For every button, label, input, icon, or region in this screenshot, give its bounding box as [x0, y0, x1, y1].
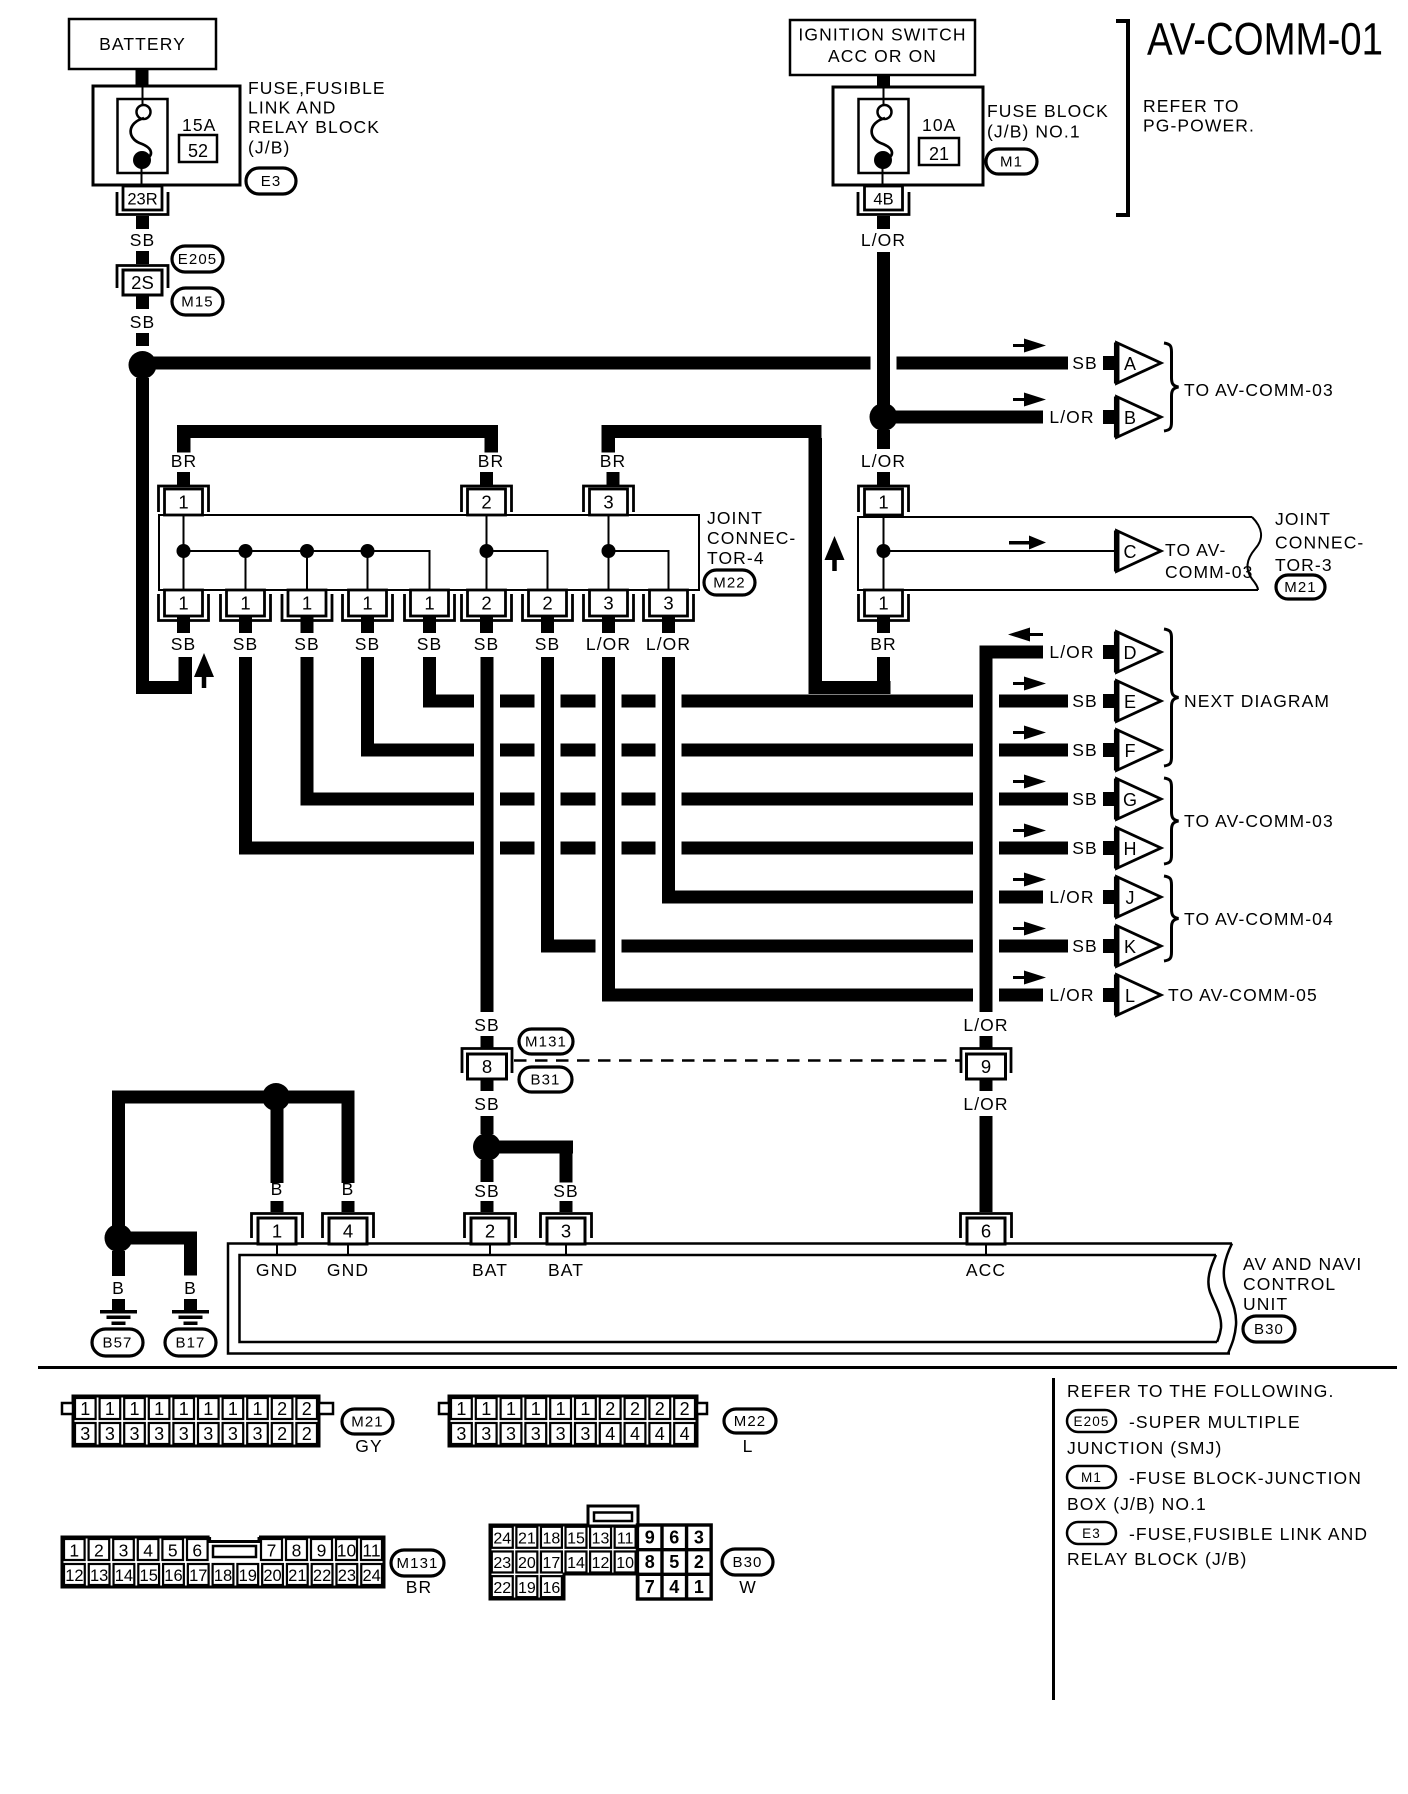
M22 internal bus group 1 — [183, 551, 185, 590]
wire GND pin 1 drop — [271, 1104, 284, 1183]
wire SB from M22 pin4 to row F — [361, 657, 374, 757]
wire stub row H — [1103, 841, 1114, 855]
svg-text:10A: 10A — [922, 115, 956, 135]
svg-text:M21: M21 — [1284, 579, 1316, 596]
svg-text:3: 3 — [603, 492, 613, 513]
M22 bottom pin 3 at x668.5 — [650, 590, 688, 616]
svg-text:B: B — [342, 1179, 355, 1199]
svg-text:SB: SB — [553, 1181, 579, 1201]
svg-text:CONNEC-: CONNEC- — [707, 528, 796, 548]
svg-text:M131: M131 — [397, 1555, 439, 1572]
svg-text:3: 3 — [603, 593, 613, 614]
svg-text:REFER TO THE FOLLOWING.: REFER TO THE FOLLOWING. — [1067, 1381, 1334, 1401]
svg-text:-FUSE BLOCK-JUNCTION: -FUSE BLOCK-JUNCTION — [1129, 1468, 1362, 1488]
brace rows D-F — [1164, 629, 1179, 766]
svg-text:19: 19 — [239, 1567, 257, 1585]
junction node SB BAT — [473, 1133, 501, 1161]
svg-text:3: 3 — [506, 1424, 516, 1444]
M22 internal bus group 3 — [608, 515, 610, 590]
wire row G SB — [307, 793, 474, 806]
svg-text:RELAY BLOCK (J/B): RELAY BLOCK (J/B) — [1067, 1549, 1247, 1569]
svg-text:1: 1 — [362, 593, 372, 614]
wire row H SB — [246, 842, 475, 855]
svg-text:3: 3 — [179, 1424, 189, 1444]
svg-text:TO AV-COMM-03: TO AV-COMM-03 — [1184, 380, 1334, 400]
svg-text:2: 2 — [94, 1541, 104, 1561]
reference bracket — [1126, 19, 1130, 217]
off-page connector G — [1117, 779, 1162, 820]
connector B30 oval — [1243, 1316, 1295, 1342]
svg-text:4: 4 — [680, 1424, 690, 1444]
wire branch to B17 — [119, 1232, 197, 1245]
svg-text:2: 2 — [481, 593, 491, 614]
wire stub above pin 2 — [481, 1201, 494, 1212]
wire L/OR from M22 pin8 to row L — [602, 657, 615, 1002]
arrow on row F — [1013, 731, 1029, 734]
svg-text:BATTERY: BATTERY — [99, 34, 186, 54]
svg-text:F: F — [1125, 741, 1136, 761]
svg-text:L/OR: L/OR — [1049, 887, 1094, 907]
svg-text:GY: GY — [355, 1436, 383, 1456]
SMJ connector 2S — [117, 266, 168, 289]
svg-text:52: 52 — [188, 141, 208, 161]
svg-text:17: 17 — [189, 1567, 207, 1585]
svg-text:9: 9 — [645, 1528, 655, 1548]
svg-text:1: 1 — [878, 593, 888, 614]
svg-text:5: 5 — [168, 1541, 178, 1561]
arrow on row B — [1013, 398, 1029, 401]
svg-text:C: C — [1124, 542, 1137, 562]
svg-text:K: K — [1124, 937, 1136, 957]
svg-text:JOINT: JOINT — [707, 508, 763, 528]
svg-text:B: B — [1124, 408, 1136, 428]
svg-text:10: 10 — [337, 1541, 357, 1561]
svg-text:4B: 4B — [873, 191, 893, 209]
connector E3 oval — [246, 168, 296, 194]
svg-text:B: B — [184, 1278, 197, 1298]
svg-text:3: 3 — [252, 1424, 262, 1444]
fuse block E3 box — [93, 86, 240, 185]
wire ignition to fuse block — [877, 75, 890, 87]
wire L/OR to pin 6 — [980, 1116, 993, 1212]
junction node ground left — [105, 1224, 133, 1252]
svg-text:TO AV-: TO AV- — [1165, 540, 1226, 560]
svg-text:(J/B) NO.1: (J/B) NO.1 — [987, 122, 1081, 142]
wire GND pin 4 drop — [342, 1091, 355, 1184]
svg-text:SB: SB — [130, 230, 156, 250]
svg-text:24: 24 — [493, 1531, 511, 1548]
svg-text:L/OR: L/OR — [861, 451, 906, 471]
M22 bottom pin 1 at x429.5 — [411, 590, 449, 616]
svg-text:M1: M1 — [1081, 1470, 1102, 1485]
svg-text:2: 2 — [680, 1399, 690, 1419]
svg-text:SB: SB — [1072, 936, 1098, 956]
wire below ground-left node — [112, 1251, 125, 1276]
off-page connector H — [1117, 828, 1162, 869]
table M131 oval — [391, 1550, 444, 1576]
battery — [69, 19, 216, 69]
ignition switch box — [790, 20, 975, 75]
wire stub above M22 top pin 2 — [480, 472, 493, 486]
svg-text:L/OR: L/OR — [646, 634, 691, 654]
arrow on row H — [1013, 829, 1029, 832]
svg-text:1: 1 — [531, 1399, 541, 1419]
M22 internal bus group 2 — [486, 515, 488, 590]
svg-text:GND: GND — [327, 1260, 369, 1280]
svg-text:20: 20 — [518, 1555, 536, 1572]
legend E205 oval — [1067, 1410, 1116, 1432]
svg-text:8: 8 — [292, 1541, 302, 1561]
svg-text:GND: GND — [256, 1260, 298, 1280]
svg-text:L/OR: L/OR — [1049, 642, 1094, 662]
svg-text:3: 3 — [561, 1221, 571, 1242]
junction node battery SB — [129, 351, 157, 379]
connector B17 oval — [165, 1329, 216, 1356]
wire row D L/OR — [986, 646, 1043, 659]
svg-text:4: 4 — [343, 1221, 353, 1242]
M22 bottom pin 1 at x183.5 — [165, 590, 203, 616]
off-page connector F — [1117, 730, 1162, 771]
wire row F SB — [368, 744, 475, 757]
svg-text:SB: SB — [474, 1015, 500, 1035]
wire stub above M22 top pin 3 — [607, 472, 620, 486]
arrow on row L — [1013, 976, 1029, 979]
svg-text:CONNEC-: CONNEC- — [1275, 533, 1364, 553]
table M22 oval — [724, 1409, 776, 1433]
wire stub below 23R — [136, 216, 149, 229]
svg-text:15A: 15A — [182, 115, 216, 135]
svg-text:(J/B): (J/B) — [248, 138, 290, 158]
svg-text:TOR-4: TOR-4 — [707, 548, 765, 568]
M21 top pin 1 — [859, 486, 909, 512]
wire SB below junction — [481, 1160, 494, 1182]
wire stub above connector 8 — [481, 1036, 494, 1048]
svg-text:SB: SB — [474, 1094, 500, 1114]
fuse number 52 box — [179, 135, 217, 162]
SMJ connector 8 — [462, 1049, 512, 1074]
svg-text:ACC: ACC — [966, 1260, 1006, 1280]
svg-text:BR: BR — [478, 451, 505, 471]
svg-text:6: 6 — [981, 1221, 991, 1242]
svg-text:L: L — [743, 1436, 754, 1456]
svg-text:1: 1 — [129, 1399, 139, 1419]
off-page connector E — [1117, 681, 1162, 722]
M21 bottom pin 1 — [865, 590, 903, 616]
svg-text:1: 1 — [456, 1399, 466, 1419]
svg-text:14: 14 — [115, 1567, 133, 1585]
svg-text:1: 1 — [80, 1399, 90, 1419]
svg-text:2: 2 — [277, 1424, 287, 1444]
svg-text:M15: M15 — [181, 294, 213, 311]
svg-text:B30: B30 — [733, 1554, 763, 1571]
wire SB segment — [136, 251, 149, 264]
M22 bottom pin 1 at x245.5 — [227, 590, 265, 616]
off-page connector K — [1117, 926, 1162, 967]
connector M1 oval — [986, 149, 1037, 174]
wire stub above pin 4 — [342, 1201, 355, 1212]
wire stub row A — [1103, 356, 1114, 370]
svg-text:10: 10 — [616, 1555, 634, 1572]
arrow on row D — [1025, 633, 1043, 636]
svg-text:SB: SB — [294, 634, 320, 654]
svg-text:2: 2 — [694, 1552, 704, 1572]
svg-text:2: 2 — [485, 1221, 495, 1242]
wire ground bus horizontal — [112, 1091, 355, 1104]
brace rows J-K — [1164, 876, 1179, 961]
connector pin 4B — [865, 186, 903, 210]
M22 top pin 2 — [462, 486, 512, 512]
svg-text:7: 7 — [645, 1577, 655, 1597]
svg-text:14: 14 — [567, 1555, 585, 1572]
svg-text:20: 20 — [263, 1567, 281, 1585]
svg-text:2: 2 — [277, 1399, 287, 1419]
svg-text:SB: SB — [1072, 740, 1098, 760]
svg-text:1: 1 — [878, 492, 888, 513]
svg-text:2: 2 — [302, 1399, 312, 1419]
svg-text:1: 1 — [179, 1399, 189, 1419]
svg-text:JOINT: JOINT — [1275, 509, 1331, 529]
arrow on row E — [1013, 682, 1029, 685]
svg-text:23: 23 — [493, 1555, 511, 1572]
wire L/OR below node B — [877, 430, 890, 449]
svg-text:1: 1 — [506, 1399, 516, 1419]
svg-text:REFER TO: REFER TO — [1143, 96, 1240, 116]
M22 bottom pin 1 at x307 — [288, 590, 326, 616]
svg-text:19: 19 — [518, 1580, 536, 1597]
svg-text:RELAY BLOCK: RELAY BLOCK — [248, 117, 380, 137]
svg-text:-SUPER MULTIPLE: -SUPER MULTIPLE — [1129, 1412, 1301, 1432]
svg-text:16: 16 — [543, 1580, 561, 1597]
svg-text:1: 1 — [203, 1399, 213, 1419]
svg-text:M1: M1 — [1000, 154, 1023, 171]
svg-text:SB: SB — [417, 634, 443, 654]
off-page connector J — [1117, 877, 1162, 918]
wire stub above pin 1 — [271, 1201, 284, 1212]
fuse 10A symbol — [859, 99, 909, 173]
svg-text:3: 3 — [80, 1424, 90, 1444]
svg-text:TO AV-COMM-03: TO AV-COMM-03 — [1184, 811, 1334, 831]
svg-text:3: 3 — [105, 1424, 115, 1444]
svg-text:ACC OR ON: ACC OR ON — [828, 46, 937, 66]
svg-text:1: 1 — [154, 1399, 164, 1419]
wire row L L/OR — [609, 989, 974, 1002]
M21 internal line — [883, 515, 885, 590]
legend E3 oval — [1067, 1522, 1116, 1544]
wire SB to junction — [481, 1116, 494, 1134]
svg-text:4: 4 — [630, 1424, 640, 1444]
svg-text:18: 18 — [214, 1567, 232, 1585]
svg-text:BR: BR — [171, 451, 198, 471]
wire stub row E — [1103, 694, 1114, 708]
svg-text:2: 2 — [655, 1399, 665, 1419]
svg-text:COMM-03: COMM-03 — [1165, 562, 1253, 582]
ground symbol B17 — [172, 1310, 209, 1314]
svg-text:1: 1 — [694, 1577, 704, 1597]
wire row K SB — [548, 940, 596, 953]
svg-text:1: 1 — [178, 492, 188, 513]
wire stub above B57 — [112, 1299, 125, 1310]
svg-text:9: 9 — [317, 1541, 327, 1561]
svg-text:2: 2 — [542, 593, 552, 614]
svg-text:1: 1 — [424, 593, 434, 614]
svg-text:BR: BR — [406, 1577, 433, 1597]
svg-text:JUNCTION (SMJ): JUNCTION (SMJ) — [1067, 1438, 1222, 1458]
svg-text:L/OR: L/OR — [1049, 985, 1094, 1005]
svg-text:SB: SB — [1072, 838, 1098, 858]
svg-text:PG-POWER.: PG-POWER. — [1143, 116, 1255, 136]
wire stub below 2S — [136, 296, 149, 309]
svg-text:4: 4 — [605, 1424, 615, 1444]
svg-text:1: 1 — [556, 1399, 566, 1419]
svg-text:M22: M22 — [734, 1413, 766, 1430]
svg-text:L/OR: L/OR — [963, 1015, 1008, 1035]
svg-text:3: 3 — [580, 1424, 590, 1444]
svg-text:L: L — [1125, 986, 1135, 1006]
wire L/OR row D vertical down to SMJ — [980, 646, 993, 1013]
svg-text:B31: B31 — [531, 1072, 561, 1089]
svg-text:12: 12 — [592, 1555, 610, 1572]
svg-text:SB: SB — [355, 634, 381, 654]
svg-text:5: 5 — [669, 1552, 679, 1572]
M22 top pin 3 — [584, 486, 634, 512]
connector E205 oval — [172, 246, 223, 272]
wire stub above pin 3 — [560, 1201, 573, 1212]
svg-text:-FUSE,FUSIBLE LINK AND: -FUSE,FUSIBLE LINK AND — [1129, 1524, 1368, 1544]
svg-text:8: 8 — [645, 1552, 655, 1572]
svg-text:3: 3 — [456, 1424, 466, 1444]
fuse number 21 box — [919, 138, 959, 165]
wire BR bar M22 pin1-pin2 — [177, 425, 498, 438]
brace rows G-H — [1164, 778, 1179, 864]
wire row A SB — [149, 357, 871, 370]
svg-text:M22: M22 — [713, 575, 745, 592]
wire SB corner to M22 pin1 — [136, 681, 192, 694]
svg-text:1: 1 — [178, 593, 188, 614]
control unit pin 2 — [465, 1214, 516, 1239]
svg-text:TO AV-COMM-04: TO AV-COMM-04 — [1184, 909, 1334, 929]
wire stub above connector 9 — [980, 1036, 993, 1048]
svg-text:21: 21 — [518, 1531, 536, 1548]
svg-text:UNIT: UNIT — [1243, 1294, 1288, 1314]
svg-text:12: 12 — [65, 1567, 83, 1585]
wire ground bus left vertical — [112, 1091, 125, 1245]
wire battery to fuse block — [136, 69, 149, 86]
fuse 15A symbol — [118, 99, 168, 173]
svg-text:SB: SB — [535, 634, 561, 654]
arrow on row K — [1013, 927, 1029, 930]
svg-text:SB: SB — [1072, 789, 1098, 809]
off-page connector B — [1117, 397, 1162, 438]
svg-text:2: 2 — [630, 1399, 640, 1419]
svg-text:18: 18 — [543, 1531, 561, 1548]
svg-text:4: 4 — [143, 1541, 153, 1561]
svg-text:B17: B17 — [176, 1335, 206, 1352]
table M21 oval — [342, 1409, 393, 1434]
svg-text:L/OR: L/OR — [1049, 407, 1094, 427]
svg-text:E205: E205 — [178, 251, 217, 268]
svg-text:H: H — [1124, 839, 1137, 859]
svg-text:1: 1 — [69, 1541, 79, 1561]
junction node ground bus — [262, 1083, 290, 1111]
svg-text:W: W — [739, 1577, 757, 1597]
svg-text:SB: SB — [474, 634, 500, 654]
svg-text:M21: M21 — [351, 1414, 383, 1431]
connector table B30 — [490, 1525, 711, 1599]
svg-text:15: 15 — [140, 1567, 158, 1585]
wire L/OR from M22 pin9 to row J — [662, 657, 675, 904]
svg-text:6: 6 — [669, 1528, 679, 1548]
junction node L/OR row B — [870, 403, 898, 431]
svg-text:E3: E3 — [1082, 1526, 1101, 1541]
svg-text:NEXT DIAGRAM: NEXT DIAGRAM — [1184, 691, 1330, 711]
svg-text:SB: SB — [130, 312, 156, 332]
svg-text:3: 3 — [203, 1424, 213, 1444]
svg-text:7: 7 — [267, 1541, 277, 1561]
wire SB trunk below node — [136, 378, 149, 694]
svg-text:17: 17 — [543, 1555, 561, 1572]
svg-text:B: B — [112, 1278, 125, 1298]
svg-text:SB: SB — [171, 634, 197, 654]
svg-text:1: 1 — [228, 1399, 238, 1419]
wire stub below 4B — [877, 216, 890, 229]
arrow on row J — [1013, 878, 1029, 881]
table B30 oval — [722, 1549, 773, 1575]
svg-text:21: 21 — [288, 1567, 306, 1585]
control unit pin 6 — [961, 1214, 1012, 1239]
svg-text:BAT: BAT — [472, 1260, 508, 1280]
ground symbol B57 — [100, 1310, 137, 1314]
svg-text:TOR-3: TOR-3 — [1275, 555, 1333, 575]
svg-text:B: B — [271, 1179, 284, 1199]
svg-text:LINK AND: LINK AND — [248, 98, 337, 118]
svg-text:4: 4 — [655, 1424, 665, 1444]
svg-text:D: D — [1124, 643, 1137, 663]
joint connector-3 M21 body — [858, 517, 1258, 590]
svg-text:E: E — [1124, 692, 1136, 712]
off-page connector C — [1117, 531, 1162, 572]
connector M22 oval — [704, 570, 755, 595]
svg-text:BOX (J/B) NO.1: BOX (J/B) NO.1 — [1067, 1494, 1207, 1514]
svg-text:L/OR: L/OR — [861, 230, 906, 250]
svg-text:3: 3 — [119, 1541, 129, 1561]
svg-text:B30: B30 — [1254, 1321, 1284, 1338]
svg-text:AV AND NAVI: AV AND NAVI — [1243, 1254, 1362, 1274]
svg-text:22: 22 — [313, 1567, 331, 1585]
svg-text:13: 13 — [90, 1567, 108, 1585]
wire stub row L — [1103, 988, 1114, 1002]
wire stub row B — [1103, 410, 1114, 424]
arrow on M21 line — [1009, 541, 1029, 545]
svg-text:BR: BR — [870, 634, 897, 654]
connector M131 oval — [519, 1029, 573, 1054]
svg-text:3: 3 — [556, 1424, 566, 1444]
svg-text:E3: E3 — [261, 173, 282, 190]
M22 bottom pin 2 at x547.5 — [529, 590, 567, 616]
connector table M131 — [62, 1537, 384, 1587]
separator line — [38, 1366, 1397, 1369]
svg-text:6: 6 — [192, 1541, 202, 1561]
svg-text:FUSE BLOCK: FUSE BLOCK — [987, 101, 1109, 121]
connector B31 oval — [519, 1067, 572, 1092]
arrow on row A — [1013, 344, 1029, 347]
svg-text:9: 9 — [981, 1056, 991, 1077]
svg-text:23: 23 — [338, 1567, 356, 1585]
svg-text:22: 22 — [493, 1580, 511, 1597]
M22 top pin 1 — [159, 486, 209, 512]
wire stub above B17 — [184, 1299, 197, 1310]
svg-text:3: 3 — [481, 1424, 491, 1444]
svg-text:11: 11 — [362, 1541, 380, 1561]
